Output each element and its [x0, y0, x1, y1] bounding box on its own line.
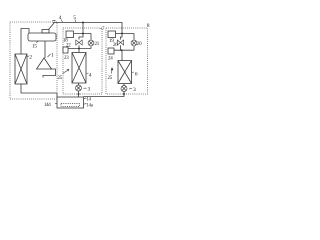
text labels [29, 15, 150, 108]
label 3 tilde [84, 87, 87, 90]
blower 1 triangle [37, 58, 52, 69]
label 15 tick [36, 42, 38, 43]
node lower header junction right [121, 49, 123, 51]
wire: branch to valve 20 [133, 34, 135, 40]
svg-text:8: 8 [147, 23, 150, 29]
wire: lower header right box [114, 49, 134, 51]
node junction on top line [82, 22, 84, 24]
wire: valve 22 to lower header [78, 45, 80, 48]
svg-text:22: 22 [66, 43, 71, 48]
wire: column 2 bottom to tank 14 [21, 84, 57, 97]
svg-text:3: 3 [133, 87, 136, 93]
label 4 leader [87, 72, 89, 75]
wire: valve 20 to lower header [133, 46, 135, 50]
valve 3 circle-X middle [76, 85, 82, 91]
box 23 [63, 47, 68, 53]
tank 14 [57, 97, 84, 108]
svg-text:1: 1 [51, 53, 54, 59]
valve 26 bowtie [117, 40, 123, 45]
label 2 [28, 55, 30, 58]
box 18 [66, 31, 74, 38]
svg-text:~7: ~7 [100, 27, 106, 32]
enclosure 8 right dashed box [106, 28, 148, 94]
column 4 with X [72, 53, 86, 84]
svg-text:5: 5 [73, 15, 76, 21]
wire: branch to valve 21 [90, 34, 92, 40]
squiggle near line start [53, 19, 56, 22]
enclosure 7 middle dashed box [63, 28, 102, 94]
svg-text:21: 21 [95, 42, 100, 47]
label 14 tilde [84, 97, 87, 100]
enclosure left dashed box [10, 22, 57, 99]
valve 3 circle-X right [121, 86, 127, 92]
wire: main top manifold line 4/5 [53, 23, 122, 34]
svg-text:14a: 14a [87, 103, 94, 108]
svg-text:15: 15 [32, 44, 37, 50]
node on right box border [123, 93, 125, 95]
node middle feed junction [82, 33, 84, 35]
arrow 25 right [111, 70, 114, 74]
wire: lower header middle box [68, 48, 91, 50]
wire: valve 26 to lower header [120, 45, 122, 50]
svg-text:24: 24 [108, 57, 113, 62]
wire: valve 3 down to tank 14 [78, 91, 80, 97]
svg-text:26: 26 [113, 43, 118, 48]
svg-text:23: 23 [64, 56, 69, 61]
label 14d dash [55, 103, 58, 105]
svg-text:3: 3 [88, 87, 91, 93]
column 6 with X [118, 61, 132, 84]
box 24 [108, 48, 114, 54]
valve 20 circle-X [131, 40, 137, 46]
wire: header to column 6 [121, 50, 123, 60]
svg-text:2: 2 [29, 55, 32, 61]
svg-text:14: 14 [87, 98, 92, 103]
valve 22 bowtie [76, 40, 82, 45]
arrow 25 middle [63, 71, 68, 74]
box 19 [108, 31, 116, 38]
node lower header junction [78, 48, 80, 50]
wire: vessel 15 to column 2 [21, 29, 29, 55]
wire: column 4 to valve 3 [78, 83, 80, 85]
wire: box 18 to feed node [74, 33, 91, 35]
wire: header to column 4 [78, 49, 80, 53]
wire: column 6 to valve 3 right [123, 84, 125, 86]
wire: valve 3 right down and to tank 14 [84, 92, 125, 97]
label 5 tick [74, 20, 77, 23]
wire: vessel 15 outlet to top line [49, 23, 55, 30]
svg-text:4: 4 [59, 15, 62, 21]
label 1 leader [48, 54, 51, 57]
wire: box 19 to right feed node [116, 33, 134, 35]
wire: branch to valve 22 [79, 34, 83, 40]
column 2 with X [15, 54, 27, 84]
svg-text:20: 20 [137, 42, 142, 47]
wire: branch to valve 26 [121, 34, 123, 40]
wire: valve 21 to lower header [90, 46, 92, 48]
wire: feed drop to middle box [82, 23, 84, 34]
node on middle box border [78, 93, 80, 95]
valve 21 circle-X [88, 40, 94, 46]
heater 14a dashed [61, 104, 80, 107]
wire: vessel 15 down to blower 1 [44, 41, 46, 58]
svg-text:25: 25 [108, 76, 113, 81]
wire: blower 1 outlet loop [43, 69, 56, 78]
svg-text:14d: 14d [44, 103, 51, 108]
svg-text:25: 25 [58, 76, 63, 81]
fitting on vessel 15 [42, 30, 49, 34]
svg-text:6: 6 [135, 72, 138, 78]
label 3 tilde right [129, 88, 132, 91]
node right feed junction [121, 33, 123, 35]
vessel 15 horizontal tank [28, 33, 56, 41]
svg-text:4: 4 [89, 73, 92, 79]
label 4 tick [61, 20, 63, 23]
label 14a tilde [84, 103, 87, 106]
label 6 leader [132, 71, 134, 74]
